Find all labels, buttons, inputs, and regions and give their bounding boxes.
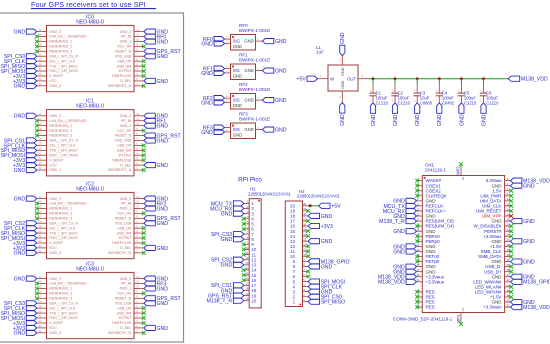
svg-text:NEO-M8U-0: NEO-M8U-0 [76,186,104,192]
svg-text:IN: IN [330,77,334,82]
svg-text:15: 15 [39,205,42,209]
no-connect IC2 right pin 6 [142,226,146,230]
no-connect IC2 right pin 5 [142,231,146,235]
svg-text:16: 16 [39,290,42,294]
no-connect CN1 left row 24 [415,295,419,299]
no-connect IC1 left pin 15 [35,124,39,128]
svg-text:GND_4: GND_4 [49,251,61,255]
svg-text:V_BCKP: V_BCKP [49,158,63,162]
svg-text:22: 22 [39,156,42,160]
power label GND below C4 [437,103,442,114]
svg-text:+3.3Vaux: +3.3Vaux [483,305,502,310]
global label GND at CN1 left row 5 [406,198,417,203]
global label GND at IC3 right pin 7 [144,301,156,306]
global label GND at IC0 right pin 12 [144,29,156,34]
power label GND below C3 [415,103,420,114]
svg-text:USB_DP: USB_DP [117,306,132,310]
svg-text:EXTINT: EXTINT [119,69,132,73]
svg-text:LNA_EN_/_RESERVED: LNA_EN_/_RESERVED [49,202,87,206]
svg-text:14: 14 [39,200,42,204]
no-connect IC0 right pin 9 [142,44,146,48]
capacitor C4 100nF C0402 [438,84,440,93]
svg-text:V_BCKP: V_BCKP [49,321,63,325]
junction at H2 pin 20 [309,204,312,207]
svg-text:18: 18 [39,219,42,223]
global label +3V3 at IC1 left pin 22 [26,158,37,163]
svg-text:19: 19 [39,224,42,228]
no-connect H1 pin 6 [242,227,246,231]
svg-text:TIMEPULSE: TIMEPULSE [112,241,132,245]
svg-text:GND: GND [14,197,26,203]
svg-text:BWIPX-1-001E: BWIPX-1-001E [239,116,270,121]
no-connect IC0 left pin 15 [35,40,39,44]
global label GND at IC2 left pin 24 [26,250,37,255]
svg-text:M138_T_R: M138_T_R [207,299,233,305]
svg-text:18: 18 [39,299,42,303]
svg-text:13: 13 [39,275,42,279]
no-connect IC3 left pin 14 [35,282,39,286]
svg-text:VDD_USB: VDD_USB [115,221,132,225]
global label RF3 at IC3 right pin 11 [144,281,156,286]
svg-text:+3V3: +3V3 [321,224,333,230]
no-connect H1 pin 11 [242,253,246,257]
global label GPS_RST at H1 pin 19 [233,293,244,298]
svg-text:GND: GND [244,68,253,73]
svg-text:GND: GND [321,239,333,245]
svg-text:GND_3: GND_3 [49,197,61,201]
svg-text:37: 37 [417,268,420,272]
no-connect CN1 left row 12 [415,234,419,238]
svg-text:USB_DP: USB_DP [117,59,132,63]
global label SPI_MISO at IC3 left pin 20 [26,311,37,316]
no-connect IC1 left pin 16 [35,129,39,133]
svg-text:22850120ANG1SYA01: 22850120ANG1SYA01 [248,192,291,197]
global label M138_VDD at CN1 right row 1 [510,178,522,183]
svg-text:21: 21 [39,234,42,238]
svg-text:LNA_EN_/_RESERVED: LNA_EN_/_RESERVED [49,119,87,123]
global label GND at filter RF2 GND pin [214,100,225,105]
no-connect IC3 right pin 6 [142,306,146,310]
svg-text:VDD_USB: VDD_USB [115,139,132,143]
no-connect IC1 right pin 4 [142,153,146,157]
power label GND above L1 [340,45,345,56]
global label GND at IC0 left pin 24 [26,83,37,88]
svg-text:SIG: SIG [233,127,240,132]
global label SPI_CS0 at IC0 left pin 18 [26,54,37,59]
svg-text:NEO-M8U-0: NEO-M8U-0 [76,266,104,272]
svg-text:MP2: MP2 [456,166,461,175]
power label +5V at H2 pin 20 [319,203,331,208]
svg-text:GND: GND [275,39,287,45]
svg-text:RESET_N: RESET_N [115,50,131,54]
no-connect CN1 left row 26 [415,305,419,309]
svg-text:TIMEPULSE: TIMEPULSE [112,74,132,78]
junction at C6 tap [482,77,485,80]
svg-text:RESERVED_3: RESERVED_3 [49,50,72,54]
junction at C5 tap [460,77,463,80]
svg-text:GND: GND [157,138,169,144]
svg-text:D_SEL: D_SEL [120,246,131,250]
global label GND at filter RF0 output [262,39,274,44]
no-connect IC0 right pin 5 [142,64,146,68]
capacitor C2 100uF C1210 [394,84,396,93]
svg-text:21: 21 [39,67,42,71]
svg-text:29: 29 [417,248,420,252]
svg-text:23: 23 [39,161,42,165]
global label GND at CN1 right row 9 [510,218,522,223]
global label GND at IC0 right pin 7 [144,54,156,59]
no-connect CN1 right row 4 [509,194,513,198]
svg-text:SCL_/_SPI_CLK: SCL_/_SPI_CLK [49,306,75,310]
global label SPI_CS3 at H1 pin 7 [233,232,244,237]
svg-text:BWIPX-1-001E: BWIPX-1-001E [239,28,270,33]
svg-text:GND: GND [221,237,233,243]
svg-text:RESET_N: RESET_N [115,134,131,138]
no-connect H2 pin 10 [306,254,310,258]
global label GND at H2 pin 8 [308,264,320,269]
svg-text:GND: GND [14,331,26,337]
no-connect IC0 left pin 17 [35,49,39,53]
svg-text:22850120ANG1SYA01: 22850120ANG1SYA01 [297,194,340,199]
no-connect IC3 right pin 4 [142,316,146,320]
svg-text:GND: GND [459,114,465,126]
svg-text:GND: GND [157,79,169,85]
global label SPI_MISO at IC0 left pin 20 [26,64,37,69]
svg-text:17: 17 [39,215,42,219]
svg-text:19: 19 [39,142,42,146]
svg-text:12: 12 [136,28,139,32]
svg-text:RESERVED_1: RESERVED_1 [49,124,72,128]
global label +3V3 at IC1 left pin 23 [26,163,37,168]
svg-text:VCC_RF: VCC_RF [117,45,131,49]
global label GND at IC1 left pin 13 [26,113,37,118]
junction at C1 tap [372,77,375,80]
no-connect IC2 left pin 14 [35,202,39,206]
global label GND at filter RF2 output [262,98,274,103]
global label GND at IC2 right pin 7 [144,221,156,226]
svg-text:GND: GND [244,127,253,132]
no-connect CN1 right row 11 [509,229,513,233]
global label GND at CN1 left row 15 [406,249,417,254]
global label GND at filter RF0 GND pin [214,41,225,46]
no-connect CN1 right row 3 [509,189,513,193]
global label GND at filter RF3 output [262,127,274,132]
svg-text:15: 15 [39,285,42,289]
global label GND at IC1 right pin 10 [144,123,156,128]
no-connect CN1 right row 10 [509,224,513,228]
no-connect H2 pin 7 [306,270,310,274]
power label GND below C6 [481,103,486,114]
svg-text:VCC_RF: VCC_RF [117,129,131,133]
capacitor C1 100uF C1210 [372,84,374,93]
svg-text:RESERVED_1: RESERVED_1 [49,40,72,44]
no-connect CN1 MP1 [459,322,463,326]
svg-text:GND: GND [157,301,169,307]
global label GND at H2 pin 13 [308,239,320,244]
svg-text:24: 24 [39,82,42,86]
global label MCU_RX at CN1 left row 7 [406,208,417,213]
svg-text:GND: GND [340,114,346,126]
svg-text:18: 18 [39,137,42,141]
svg-text:GND_2: GND_2 [120,30,132,34]
svg-text:GND: GND [233,44,242,49]
no-connect IC0 right pin 1 [142,84,146,88]
global label GND at H2 pin 18 [308,213,320,218]
global label SPI_CS1 at H1 pin 17 [233,283,244,288]
svg-text:10: 10 [136,285,139,289]
junction at C2 tap [394,77,397,80]
global label GND at IC3 right pin 12 [144,276,156,281]
svg-text:RESERVED_3: RESERVED_3 [49,134,72,138]
svg-text:14: 14 [39,33,42,37]
svg-text:22: 22 [39,72,42,76]
global label GND at filter RF1 output [262,68,274,73]
no-connect IC3 right pin 1 [142,331,146,335]
wire C2 tap [394,79,396,84]
svg-text:20: 20 [39,229,42,233]
global label +3V3 at IC3 left pin 23 [26,325,37,330]
svg-text:M138_VDD: M138_VDD [378,280,405,286]
svg-text:16: 16 [39,127,42,131]
svg-text:RESET_N: RESET_N [115,297,131,301]
global label SPI_CS3 at IC3 left pin 18 [26,301,37,306]
svg-text:12: 12 [136,195,139,199]
svg-text:19: 19 [39,57,42,61]
global label SPI_CS2 at IC2 left pin 18 [26,221,37,226]
svg-text:21: 21 [417,228,420,232]
global label GPS_RST at IC0 right pin 8 [144,49,156,54]
svg-text:16: 16 [39,43,42,47]
global label GND at IC1 right pin 7 [144,138,156,143]
no-connect CN1 right row 7 [509,209,513,213]
svg-text:17: 17 [39,132,42,136]
no-connect CN1 right row 18 [509,265,513,269]
no-connect H2 pin 19 [306,209,310,213]
global label GND at IC2 right pin 10 [144,206,156,211]
global label MCU_TX at H1 pin 1 [233,201,244,206]
no-connect IC2 left pin 17 [35,216,39,220]
svg-text:USB_DM: USB_DM [117,231,132,235]
no-connect CN1 right row 24 [509,295,513,299]
svg-text:+3.3Vaux: +3.3Vaux [426,279,445,284]
global label MCU_TX at CN1 left row 6 [406,203,417,208]
svg-text:SAFEBOOT_N: SAFEBOOT_N [108,168,132,172]
no-connect CN1 right row 15 [509,250,513,254]
svg-text:USB_DM: USB_DM [117,311,132,315]
svg-text:GND: GND [415,114,421,126]
svg-text:GND: GND [157,221,169,227]
global label GND at IC0 left pin 13 [26,29,37,34]
global label +3V3 at IC2 left pin 23 [26,245,37,250]
svg-text:V_BCKP: V_BCKP [49,241,63,245]
no-connect IC2 right pin 4 [142,236,146,240]
svg-text:M138_VDD: M138_VDD [521,77,548,83]
global label SPI_CLK at IC0 left pin 19 [26,59,37,64]
wire C4 tap [438,79,440,84]
svg-text:41: 41 [417,278,420,282]
svg-text:21: 21 [39,151,42,155]
svg-text:NEO-M8U-0: NEO-M8U-0 [76,19,104,25]
svg-text:GND: GND [14,168,26,174]
svg-text:23: 23 [39,244,42,248]
global label GND at IC1 left pin 24 [26,167,37,172]
svg-text:D_SEL: D_SEL [120,326,131,330]
global label M138_VDD at CN1 right row 26 [510,305,522,310]
no-connect CN1 left row 1 [415,179,419,183]
no-connect IC1 left pin 14 [35,119,39,123]
svg-text:15: 15 [39,122,42,126]
svg-text:C1210: C1210 [486,101,499,106]
no-connect H1 pin 5 [242,222,246,226]
global label GND at IC1 right pin 12 [144,113,156,118]
svg-text:20: 20 [39,147,42,151]
svg-text:GND: GND [157,286,169,292]
svg-text:RESERVED_2: RESERVED_2 [49,212,72,216]
no-connect CN1 left row 3 [415,189,419,193]
svg-text:VCC: VCC [49,79,57,83]
global label RF0 at filter RF0 SIG pin [214,37,225,42]
global label M138_T_R at H1 pin 20 [233,298,244,303]
no-connect IC1 right pin 6 [142,143,146,147]
svg-text:13: 13 [39,28,42,32]
svg-text:52: 52 [461,177,465,181]
svg-text:GND: GND [233,103,242,108]
no-connect CN1 left row 4 [415,194,419,198]
svg-text:GND_2: GND_2 [120,114,132,118]
svg-text:+5V: +5V [296,77,306,83]
svg-text:24: 24 [39,249,42,253]
no-connect IC0 left pin 14 [35,35,39,39]
svg-text:27: 27 [417,243,420,247]
global label GPS_RST at IC3 right pin 8 [144,296,156,301]
global label M138_GPIO at CN1 right row 21 [510,279,522,284]
no-connect IC1 right pin 1 [142,168,146,172]
svg-text:14: 14 [39,117,42,121]
wire M138_VDD rail [369,78,509,80]
no-connect CN1 right row 12 [509,234,513,238]
svg-text:GND: GND [371,114,377,126]
svg-text:17: 17 [39,48,42,52]
no-connect IC2 right pin 9 [142,211,146,215]
power label +5V at L1 IN [307,76,318,81]
global label +3V3 at IC2 left pin 22 [26,240,37,245]
svg-text:LNA_EN_/_RESERVED: LNA_EN_/_RESERVED [49,282,87,286]
svg-text:TXD_/_SPI_MISO: TXD_/_SPI_MISO [49,311,77,315]
svg-text:GND: GND [523,184,535,190]
svg-text:M138_VDD: M138_VDD [523,305,550,311]
no-connect CN1 left row 23 [415,290,419,294]
global label GND at IC3 right pin 2 [144,325,156,330]
no-connect H1 pin 9 [242,242,246,246]
svg-text:GND_3: GND_3 [49,277,61,281]
no-connect IC0 right pin 3 [142,74,146,78]
svg-text:SAFEBOOT_N: SAFEBOOT_N [108,84,132,88]
no-connect IC0 right pin 4 [142,69,146,73]
global label M138_GPIO at H2 pin 9 [308,259,320,264]
svg-text:TXD_/_SPI_MISO: TXD_/_SPI_MISO [49,231,77,235]
svg-text:TIMEPULSE: TIMEPULSE [112,158,132,162]
svg-text:D_SEL: D_SEL [120,163,131,167]
svg-text:BWIPX-1-001E: BWIPX-1-001E [239,87,270,92]
svg-text:BWIPX-1-001E: BWIPX-1-001E [239,57,270,62]
svg-text:GND: GND [233,74,242,79]
global label RF2 at filter RF2 SIG pin [214,96,225,101]
svg-text:GND: GND [321,264,333,270]
no-connect IC2 right pin 1 [142,251,146,255]
svg-text:SIG: SIG [233,68,240,73]
capacitor C3 10uF C0805 [416,84,418,93]
svg-text:USB_DM: USB_DM [117,149,132,153]
svg-text:18: 18 [39,52,42,56]
svg-text:EXTINT: EXTINT [119,316,132,320]
global label GND at IC3 right pin 10 [144,286,156,291]
svg-text:GND_3: GND_3 [49,30,61,34]
no-connect CN1 left row 25 [415,300,419,304]
svg-text:LNA_EN_/_RESERVED: LNA_EN_/_RESERVED [49,35,87,39]
no-connect CN1 left row 10 [415,224,419,228]
global label GND at H2 pin 3 [308,289,320,294]
svg-text:GND: GND [201,130,213,136]
svg-text:GND: GND [393,249,405,255]
svg-text:VCC_RF: VCC_RF [117,292,131,296]
global label SPI_CS2 at H1 pin 12 [233,257,244,262]
global label RF1 at IC1 right pin 11 [144,118,156,123]
no-connect IC3 right pin 3 [142,321,146,325]
no-connect IC3 right pin 9 [142,291,146,295]
svg-text:GND: GND [14,84,26,90]
global label GND at IC3 left pin 24 [26,330,37,335]
svg-text:GND_1: GND_1 [120,124,132,128]
global label M138_T_R at CN1 left row 9 [406,218,417,223]
power label GND below C5 [459,103,464,114]
svg-text:52: 52 [507,304,510,308]
power label GND below L1 [340,103,345,114]
svg-text:RF_IN: RF_IN [121,282,132,286]
svg-text:51: 51 [461,308,465,312]
svg-text:GND: GND [523,259,535,265]
svg-text:M138_GPIO: M138_GPIO [523,280,550,286]
power label M138_VDD at rail end [508,76,520,81]
capacitor C6 100uF C1210 [483,84,485,93]
wire C3 tap [416,79,418,84]
svg-text:20: 20 [251,298,257,303]
svg-text:12: 12 [136,275,139,279]
junction at C4 tap [438,77,441,80]
no-connect IC0 right pin 6 [142,59,146,63]
svg-text:VCC: VCC [49,246,57,250]
svg-text:GND: GND [275,98,287,104]
no-connect H1 pin 15 [242,273,246,277]
svg-text:TXD_/_SPI_MISO: TXD_/_SPI_MISO [49,64,77,68]
svg-text:GND: GND [157,54,169,60]
svg-text:RF_IN: RF_IN [121,35,132,39]
global label GND at CN1 left row 11 [406,229,417,234]
svg-text:GND: GND [157,326,169,332]
svg-text:1uF: 1uF [316,50,324,55]
global label SPI_MOSI at IC0 left pin 21 [26,68,37,73]
svg-text:GND: GND [244,98,253,103]
svg-text:SDA_/_SPI_CS_N: SDA_/_SPI_CS_N [49,221,78,225]
global label GND at filter RF1 GND pin [214,70,225,75]
svg-text:SAFEBOOT_N: SAFEBOOT_N [108,331,132,335]
svg-text:20: 20 [39,309,42,313]
global label GND at CN1 right row 2 [510,183,522,188]
global label +3V3 at H2 pin 16 [308,223,320,228]
svg-text:15: 15 [39,38,42,42]
svg-text:EXTINT: EXTINT [119,153,132,157]
global label GND at CN1 right row 20 [510,274,522,279]
svg-text:GND: GND [157,206,169,212]
